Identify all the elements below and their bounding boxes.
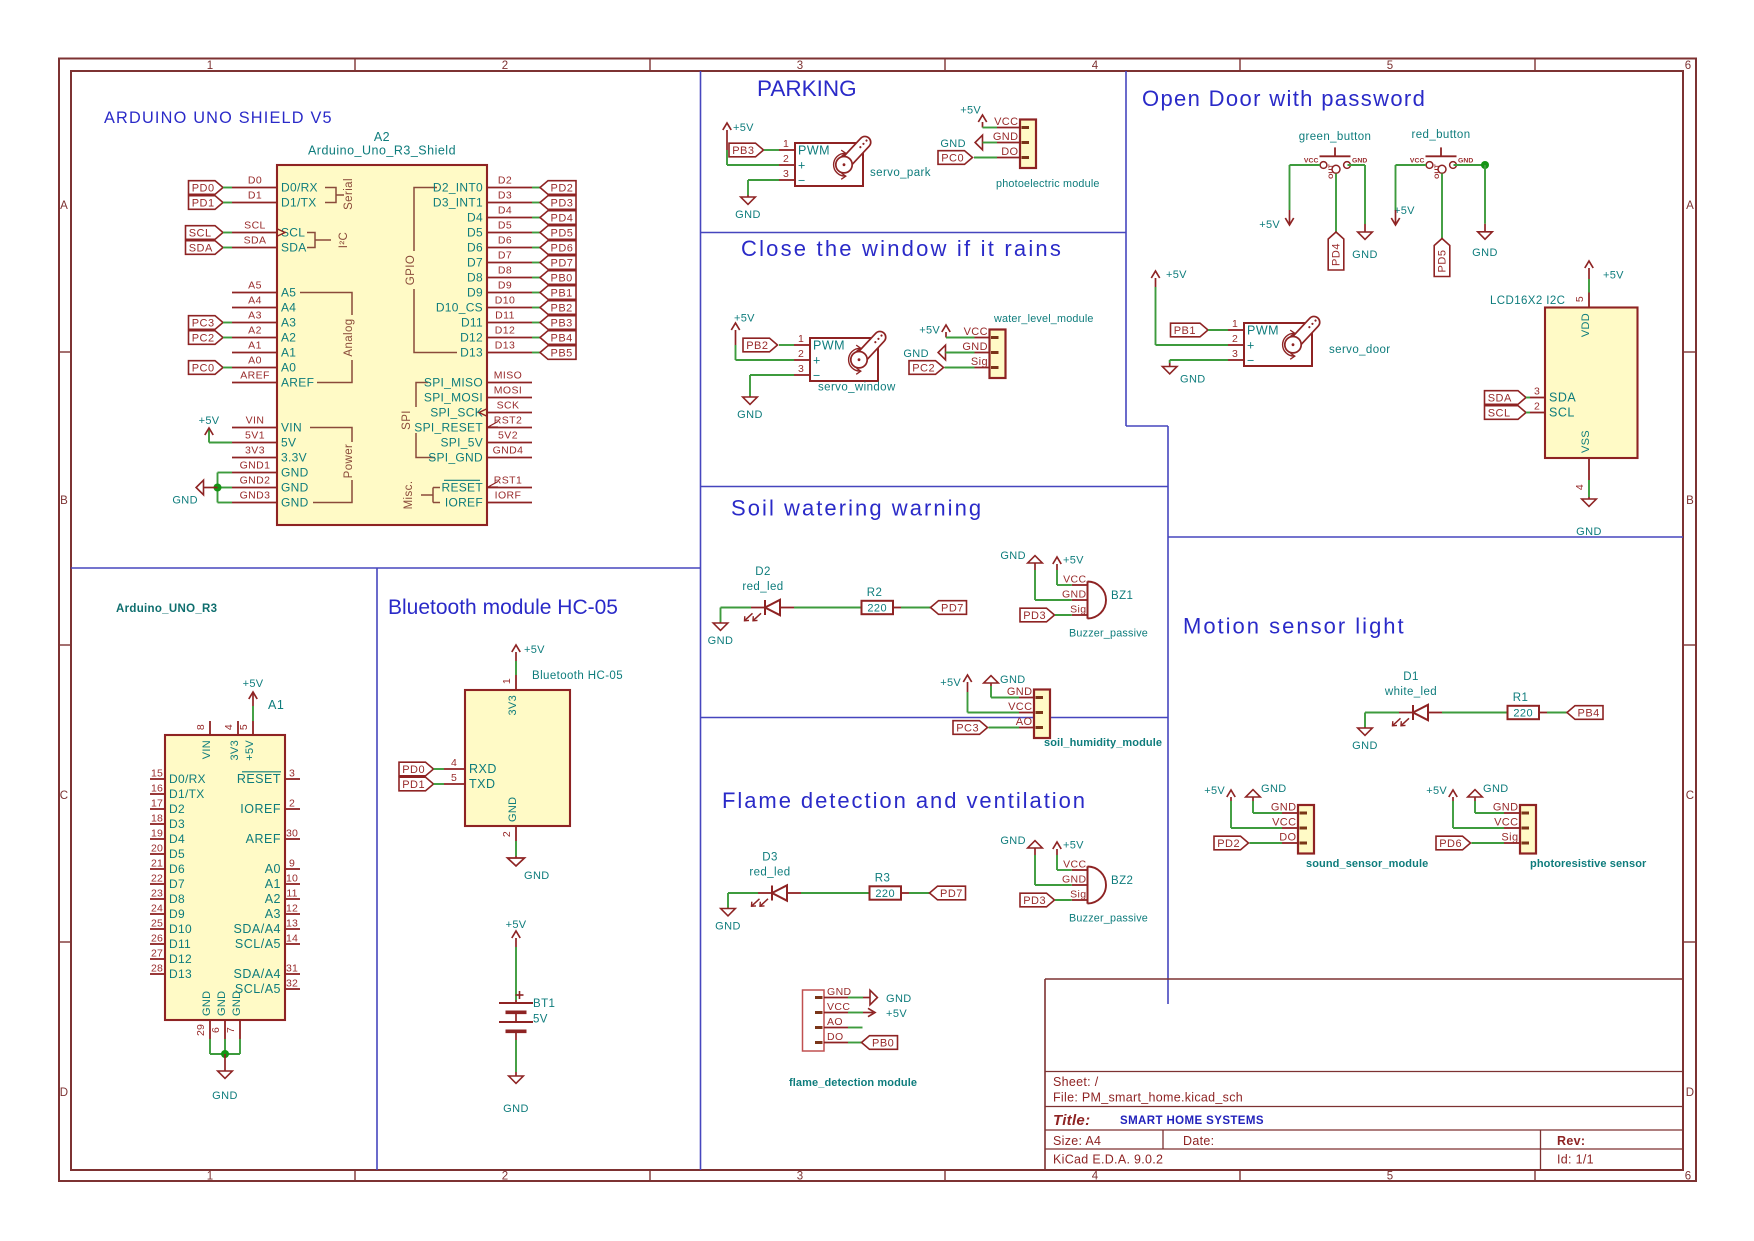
svg-text:3V3: 3V3 [507,695,519,715]
svg-text:servo_window: servo_window [818,382,896,394]
svg-text:A2: A2 [281,331,296,345]
shield pin SCL (SCL) [232,232,277,234]
wire PD3-Sig BZ2 [1055,899,1072,901]
wire PB1-PWM [1208,329,1228,331]
svg-text:GND: GND [524,870,550,882]
svg-text:B: B [1686,495,1694,507]
svg-text:3V3: 3V3 [245,445,265,457]
wire LCD VSS to GND [1588,480,1590,497]
svg-text:D4: D4 [498,205,512,217]
svg-text:Buzzer_passive: Buzzer_passive [1069,628,1148,640]
wire +5V to LCD VDD [1588,279,1590,293]
shield pin RST2 (SPI_RESET) [487,427,532,429]
power GND photoresistive [1474,797,1476,801]
svg-text:GND: GND [1483,783,1509,795]
svg-text:5V: 5V [533,1014,548,1026]
svg-text:PC3: PC3 [192,317,215,329]
svg-text:GND: GND [281,496,309,510]
svg-text:sound_sensor_module: sound_sensor_module [1306,858,1428,870]
svg-text:30: 30 [286,827,298,839]
power GND servo_window [749,396,751,397]
frame column ticks bottom [354,1170,356,1181]
svg-text:D9: D9 [498,280,512,292]
LCD pin 4 (VSS) [1588,458,1590,480]
svg-text:GND: GND [507,797,519,822]
svg-text:VCC: VCC [1494,817,1518,829]
svg-text:A5: A5 [281,286,296,300]
wire green_button OUT [1335,174,1337,233]
uno pin 17 (D2) [150,808,165,810]
svg-text:SPI: SPI [401,410,413,430]
uno pin 28 (D13) [150,973,165,975]
section divider vertical line x=700 [700,71,702,1170]
power GND below bluetooth [515,856,517,858]
wire SCL [223,232,232,234]
section divider vertical line x=377 [376,568,378,1170]
svg-text:VIN: VIN [246,415,265,427]
wire D9 [532,292,540,294]
global label PC3 soil [953,721,988,735]
svg-text:29: 29 [195,1024,207,1036]
svg-text:22: 22 [151,872,163,884]
global label PB1 [540,286,576,300]
svg-text:1: 1 [1232,318,1238,330]
svg-text:+5V: +5V [524,644,545,656]
svg-text:SDA: SDA [281,241,307,255]
svg-text:GND: GND [1493,802,1519,814]
svg-text:5: 5 [451,772,457,784]
svg-text:IORF: IORF [495,490,522,502]
wire PD1-TXD [434,783,445,785]
svg-text:17: 17 [151,797,163,809]
svg-text:PB4: PB4 [551,332,573,344]
pin SCL input marker [277,229,285,237]
wire PC3-AO [989,727,1020,729]
svg-text:15: 15 [151,767,163,779]
svg-text:VCC: VCC [994,116,1018,128]
power GND below red_button [1484,224,1486,232]
wire D3 [532,202,540,204]
svg-text:1: 1 [783,138,789,150]
svg-text:Misc.: Misc. [403,481,415,510]
svg-text:1: 1 [798,333,804,345]
wire +5V to VCC water_level [946,337,975,339]
global label PD5 [540,226,576,240]
power GND servo_park [747,195,749,197]
svg-text:+5V: +5V [506,919,527,931]
svg-text:4: 4 [1574,484,1586,490]
svg-text:SPI_RESET: SPI_RESET [414,421,483,435]
svg-text:DO: DO [1001,146,1018,158]
uno pin 4 (3V3) [237,721,239,735]
svg-text:2: 2 [502,60,509,72]
svg-text:A2: A2 [265,892,281,906]
svg-text:32: 32 [286,977,298,989]
shield pin GND2 (GND) [232,487,277,489]
svg-text:VIN: VIN [281,421,302,435]
svg-text:2: 2 [1232,333,1238,345]
svg-text:PB2: PB2 [551,302,573,314]
svg-text:GND: GND [212,1090,238,1102]
wire +5V to servo_window pin2 [735,345,737,360]
svg-text:+: + [813,353,821,367]
svg-text:GND: GND [1261,783,1287,795]
svg-text:GND4: GND4 [493,445,524,457]
svg-text:D12: D12 [460,331,483,345]
wire battery top [515,947,517,1000]
global label PB5 [540,346,576,360]
buzzer BZ1 [1087,581,1089,618]
svg-text:28: 28 [151,962,163,974]
power +5V right of flame module [863,1012,873,1014]
svg-text:VCC: VCC [1272,817,1296,829]
svg-text:I²C: I²C [338,232,350,249]
svg-text:7: 7 [225,1027,237,1033]
shield pin GND4 (SPI_GND) [487,457,532,459]
pin RST2 inverted marker [488,422,498,428]
wire flame VCC [848,1012,863,1014]
power GND photoelectric [975,135,982,150]
uno pin 2 (IOREF) [285,808,300,810]
svg-text:6: 6 [1685,1171,1692,1183]
svg-text:Serial: Serial [343,178,355,210]
wire GND water_level [946,352,975,354]
global label PB3 [729,143,764,157]
global label PC0 [189,361,224,375]
svg-text:18: 18 [151,812,163,824]
svg-text:3: 3 [1232,348,1238,360]
junction uno GND [221,1050,229,1058]
svg-text:A0: A0 [281,361,296,375]
wire D8 [532,277,540,279]
shield Analog group [300,293,352,316]
svg-text:A0: A0 [248,355,262,367]
svg-text:GND: GND [708,635,734,647]
svg-text:PD6: PD6 [551,242,574,254]
global label PC0 [938,151,973,165]
svg-text:9: 9 [289,857,295,869]
svg-text:Bluetooth HC-05: Bluetooth HC-05 [532,670,623,682]
shield pin D8 (D8) [487,277,532,279]
svg-text:D3_INT1: D3_INT1 [433,196,483,210]
svg-text:GND: GND [1007,686,1033,698]
svg-text:VCC: VCC [1304,158,1319,165]
svg-text:Sig: Sig [1070,888,1086,900]
section divider: Open Door bottom [1168,536,1683,538]
svg-text:GND: GND [993,131,1019,143]
svg-text:4: 4 [1092,1171,1099,1183]
wire PC2 [223,337,232,339]
svg-text:3.3V: 3.3V [281,451,307,465]
svg-text:+5V: +5V [1259,219,1280,231]
svg-text:2: 2 [1534,401,1540,413]
shield GPIO group [414,188,437,252]
shield pin D13 (D13) [487,352,532,354]
shield pin D4 (D4) [487,217,532,219]
power GND sound module [1252,797,1254,801]
global label SDA lcd [1485,391,1527,405]
svg-text:+5V: +5V [1204,785,1225,797]
wire battery bottom [515,1040,517,1072]
svg-text:+5V: +5V [1063,555,1084,567]
shield pin MISO (SPI_MISO) [487,382,532,384]
svg-text:5: 5 [1387,1171,1394,1183]
svg-text:OUT: OUT [1328,163,1335,178]
svg-text:5V2: 5V2 [498,430,518,442]
svg-text:B: B [60,495,68,507]
uno pin 20 (D5) [150,853,165,855]
svg-text:PB3: PB3 [551,317,573,329]
uno pin 14 (SCL/A5) [285,943,300,945]
svg-text:RESET: RESET [441,481,483,495]
svg-text:BT1: BT1 [533,998,555,1010]
svg-text:PD0: PD0 [192,182,215,194]
svg-text:+5V: +5V [244,740,256,761]
shield pin D9 (D9) [487,292,532,294]
section divider vertical x=1168 [1167,426,1169,1004]
svg-text:AO: AO [1016,716,1033,728]
servo U servo_door [1244,323,1312,366]
svg-text:6: 6 [210,1027,222,1033]
svg-text:220: 220 [867,602,887,614]
svg-text:GPIO: GPIO [405,255,417,285]
bluetooth pin 5 (TXD) [444,783,465,785]
svg-text:A2: A2 [248,325,262,337]
svg-text:VCC: VCC [1063,573,1086,585]
wire PC2-Sig [945,367,975,369]
svg-text:D0: D0 [248,175,262,187]
svg-text:Date:: Date: [1183,1134,1214,1148]
svg-text:AO: AO [827,1016,843,1028]
svg-text:GND: GND [827,986,852,998]
svg-text:D6: D6 [498,235,512,247]
uno pin 23 (D8) [150,898,165,900]
pin RST1 inverted marker [488,482,498,488]
svg-text:SDA: SDA [244,235,267,247]
frame row ticks right [1683,351,1696,353]
svg-text:A: A [60,200,68,212]
svg-text:SDA: SDA [1549,391,1576,405]
svg-text:SDA: SDA [1488,392,1512,404]
svg-text:D2_INT0: D2_INT0 [433,181,483,195]
svg-text:C: C [60,790,69,802]
global label PD4 [540,211,576,225]
svg-text:4: 4 [1092,60,1099,72]
shield pin D10 (D10_CS) [487,307,532,309]
svg-text:PWM: PWM [813,338,845,352]
title block frame [1045,978,1683,980]
global label PD5 vertical [1434,239,1450,277]
wire PC3 [223,322,232,324]
svg-text:220: 220 [875,888,895,900]
soil_humidity_module connector [1034,690,1050,739]
svg-text:D0/RX: D0/RX [281,181,318,195]
global label PB0 [540,271,576,285]
svg-text:Buzzer_passive: Buzzer_passive [1069,913,1148,925]
shield pin A0 (A0) [232,367,277,369]
svg-text:Open Door with password: Open Door with password [1142,86,1426,111]
svg-text:3: 3 [1534,386,1540,398]
shield pin D0 (D0/RX) [232,187,277,189]
led D3 red_led with resistor R3 and label PD7 [727,893,729,908]
svg-text:3: 3 [797,1171,804,1183]
shield pin A1 (A1) [232,352,277,354]
servo U servo_park [795,143,863,186]
power GND above BZ1 [1034,563,1036,570]
wire PB3-PWM [764,149,779,151]
wire flame AO stub [848,1027,863,1029]
svg-text:VCC: VCC [1063,858,1086,870]
svg-text:IOREF: IOREF [240,802,281,816]
svg-text:A3: A3 [281,316,296,330]
global label PD4 vertical [1328,232,1344,270]
wire +5V to BZ2 VCC [1056,855,1058,870]
svg-text:10: 10 [286,872,298,884]
svg-text:+: + [798,158,806,172]
photoresistive sensor connector [1520,805,1536,854]
svg-text:A1: A1 [265,877,281,891]
global label PD2 sound [1214,836,1249,850]
wire D5 [532,232,540,234]
wire GND sound module [1252,801,1254,813]
uno pin 32 (SCL/A5) [285,988,300,990]
svg-text:Sig: Sig [971,356,988,368]
svg-text:A: A [1686,200,1694,212]
sound_sensor_module connector [1298,805,1314,854]
global label PD7 [540,256,576,270]
svg-text:D5: D5 [169,847,185,861]
wire D12 [532,337,540,339]
svg-text:27: 27 [151,947,163,959]
svg-text:−: − [813,368,821,382]
svg-text:MISO: MISO [494,370,522,382]
wire PC0-DO [974,157,997,159]
svg-text:GND: GND [940,138,966,150]
svg-text:Sig: Sig [1501,832,1518,844]
svg-text:+5V: +5V [1426,785,1447,797]
svg-text:GND: GND [216,991,228,1016]
wire SDA [223,247,232,249]
uno pin 19 (D4) [150,838,165,840]
wire GND photoelectric [983,142,998,144]
wire +5V to BZ1 VCC [1056,570,1058,585]
svg-text:VCC: VCC [827,1001,850,1013]
wire servo_park pin3 to GND [748,179,779,181]
svg-text:PD7: PD7 [551,257,574,269]
svg-text:PD6: PD6 [1439,838,1462,850]
LCD16X2 I2C body [1545,308,1638,459]
svg-text:GND: GND [172,495,198,507]
wire bluetooth GND [515,841,517,856]
svg-text:C: C [1686,790,1695,802]
svg-text:Flame detection and ventilatio: Flame detection and ventilation [722,788,1087,813]
svg-text:GND: GND [737,409,763,421]
svg-text:SPI_MOSI: SPI_MOSI [424,391,483,405]
svg-text:A4: A4 [281,301,296,315]
svg-text:D13: D13 [169,967,192,981]
svg-text:GND: GND [1000,674,1026,686]
shield pin 5V2 (SPI_5V) [487,442,532,444]
svg-text:26: 26 [151,932,163,944]
svg-text:+5V: +5V [960,105,981,117]
svg-text:PD3: PD3 [1023,610,1046,622]
battery plus sign [516,994,524,996]
svg-text:3: 3 [797,60,804,72]
svg-text:PB2: PB2 [746,340,768,352]
svg-text:+5V: +5V [886,1008,907,1020]
svg-text:D1: D1 [248,190,262,202]
svg-text:GND: GND [735,209,761,221]
svg-text:Sig: Sig [1070,603,1086,615]
svg-text:D10: D10 [495,295,515,307]
shield pin GND1 (GND) [232,472,277,474]
wire PD6-Sig photoresistive [1472,842,1505,844]
bluetooth pin 2 (GND) [515,826,517,841]
global label SDA [186,241,224,255]
shield pin A2 (A2) [232,337,277,339]
svg-text:D3: D3 [169,817,185,831]
bluetooth pin 1 (3V3) [515,675,517,690]
svg-text:GND: GND [1352,249,1378,261]
shield pin MOSI (SPI_MOSI) [487,397,532,399]
svg-text:D12: D12 [495,325,515,337]
junction red_button GND [1481,161,1489,169]
svg-text:D: D [1686,1087,1695,1099]
wire GND to BZ1 [1034,570,1036,600]
shield pin D3 (D3_INT1) [487,202,532,204]
power GND at shield [204,487,218,489]
svg-text:Rev:: Rev: [1557,1134,1585,1148]
shield pin D5 (D5) [487,232,532,234]
uno pin 5 (+5V) [252,721,254,735]
svg-text:A1: A1 [248,340,262,352]
svg-text:+5V: +5V [243,678,264,690]
svg-text:GND: GND [1352,158,1367,165]
svg-text:PD5: PD5 [1437,250,1449,273]
svg-text:2: 2 [783,153,789,165]
svg-text:RST2: RST2 [494,415,522,427]
global label PC3 [189,316,224,330]
svg-text:2: 2 [502,1171,509,1183]
bluetooth U body [465,690,570,826]
svg-text:D11: D11 [169,937,191,951]
wire servo_window pin3 to GND [750,374,794,376]
global label PD0 [189,181,224,195]
wire D13 [532,352,540,354]
water_level_module connector [990,330,1006,379]
global label PB3 [540,316,576,330]
power GND below green_button [1364,224,1366,232]
svg-text:PD4: PD4 [551,212,574,224]
svg-text:Analog: Analog [343,318,355,356]
svg-text:photoelectric module: photoelectric module [996,178,1100,190]
wire servo_door pin3 to GND [1170,359,1228,361]
wire PD0-RXD [434,768,445,770]
svg-text:BZ1: BZ1 [1111,590,1133,602]
wire green_button GND [1348,164,1366,166]
svg-text:A3: A3 [265,907,281,921]
svg-text:GND: GND [962,341,988,353]
svg-text:Motion sensor light: Motion sensor light [1183,614,1406,639]
svg-text:D3: D3 [498,190,512,202]
power GND water_level [938,345,945,360]
svg-text:Size: A4: Size: A4 [1053,1134,1101,1148]
wire +5V to VCC sound module [1230,801,1232,828]
global label PD6 photoresistive [1436,836,1471,850]
uno pin 12 (A3) [285,913,300,915]
uno pin 8 (VIN) [209,721,211,735]
svg-text:Id: 1/1: Id: 1/1 [1557,1153,1594,1167]
